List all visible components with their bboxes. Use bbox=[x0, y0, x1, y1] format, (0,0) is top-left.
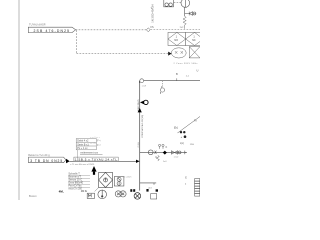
svg-text:c: c bbox=[185, 183, 187, 185]
thermometer circle bbox=[98, 190, 107, 199]
pipe label boxed bbox=[74, 157, 118, 161]
svg-text:12H: 12H bbox=[190, 144, 194, 146]
black diamond node bbox=[163, 151, 167, 155]
svg-text:+: + bbox=[181, 136, 183, 139]
svg-text:2SB 476-DN25: 2SB 476-DN25 bbox=[34, 29, 70, 33]
test point stub bbox=[162, 81, 164, 88]
flag callout 1SB5 bbox=[29, 157, 67, 163]
limit switches above chain bbox=[159, 144, 165, 149]
svg-text:entierement xxx: entierement xxx bbox=[80, 152, 98, 155]
table specs bbox=[76, 139, 96, 150]
gauge M1 circle bbox=[181, 0, 190, 7]
pump pair circles bbox=[115, 191, 126, 197]
wire dashed branch to pilot bbox=[77, 53, 169, 55]
node diamond connector bbox=[146, 28, 150, 32]
svg-text:E: E bbox=[185, 178, 187, 180]
valve block V1 cell 1 bbox=[168, 32, 186, 45]
svg-text:TUYAU d'ASP.: TUYAU d'ASP. bbox=[29, 22, 46, 26]
wire dashed branch down bbox=[76, 30, 78, 53]
aux box bbox=[151, 194, 157, 199]
pin tick B bbox=[176, 78, 178, 80]
svg-text:x xx 2-xx x: x xx 2-xx x bbox=[90, 137, 101, 139]
pilot oval P1 bbox=[171, 48, 186, 58]
svg-text:L(x): L(x) bbox=[180, 143, 184, 145]
svg-text:1: 1 bbox=[176, 36, 178, 39]
svg-text:F <: F < bbox=[97, 144, 101, 147]
svg-text:B: B bbox=[176, 72, 178, 76]
diagonal leader TK bbox=[178, 117, 201, 134]
svg-text:x13: x13 bbox=[148, 188, 152, 190]
spec text block bbox=[68, 173, 83, 188]
terminal strip bbox=[195, 179, 200, 197]
filter F1 bbox=[99, 172, 113, 187]
valve cell X (row2) bbox=[189, 47, 202, 58]
return pipe wire bbox=[70, 160, 137, 162]
branch chain wire bbox=[140, 151, 187, 153]
svg-text:COMP ACCA D 3P(3/8): COMP ACCA D 3P(3/8) bbox=[141, 115, 144, 138]
svg-text:Bxxxxx: Bxxxxx bbox=[29, 195, 37, 198]
wire dashed between breather and gauge bbox=[174, 1, 181, 3]
svg-text:1x4: 1x4 bbox=[163, 161, 167, 163]
wire dashed continuing right bbox=[151, 29, 201, 31]
inlet triangle marker bbox=[91, 166, 96, 172]
arrowhead into pilot oval bbox=[168, 52, 171, 56]
arrowhead into bus bbox=[136, 160, 140, 163]
svg-text:S4 x-B(7): S4 x-B(7) bbox=[123, 177, 132, 179]
coupling dark marks bbox=[130, 189, 132, 192]
svg-text:Px + 1 xx: Px + 1 xx bbox=[77, 147, 88, 150]
svg-text:3 TB DN 0N25: 3 TB DN 0N25 bbox=[30, 159, 62, 163]
svg-text:Debit 4 x2: Debit 4 x2 bbox=[77, 140, 89, 143]
sensor dots bbox=[180, 131, 182, 133]
pressure gauge block bbox=[114, 177, 124, 186]
motor box M bbox=[87, 193, 94, 198]
outlet wire bbox=[140, 182, 157, 184]
svg-text:x TL xxx 44x xxx x DN25: x TL xxx 44x xxx x DN25 bbox=[70, 164, 95, 166]
svg-text:K: K bbox=[166, 146, 168, 149]
check valve CV1 bbox=[185, 12, 196, 16]
svg-text:x 0,2: x 0,2 bbox=[174, 157, 179, 159]
svg-text:NO: NO bbox=[174, 39, 178, 42]
svg-text:NC: NC bbox=[192, 39, 196, 42]
measuring point M bbox=[140, 101, 144, 105]
svg-text:C 0,8: C 0,8 bbox=[138, 142, 140, 148]
leader from table bbox=[76, 150, 78, 161]
arrowhead from callout bbox=[66, 159, 70, 164]
svg-text:1,1: 1,1 bbox=[186, 75, 190, 77]
svg-text:1 SB.5 x TUYAU 24 xTL: 1 SB.5 x TUYAU 24 xTL bbox=[75, 157, 117, 161]
wire dashed to valve block bbox=[76, 29, 147, 31]
drain symbol at pipe start bbox=[139, 79, 143, 83]
svg-text:4M,: 4M, bbox=[59, 190, 64, 194]
sheet border line bbox=[18, 0, 20, 200]
main vertical bus bbox=[139, 81, 141, 191]
svg-text:2 Vmax 380V 50Hz: 2 Vmax 380V 50Hz bbox=[174, 63, 198, 65]
svg-text:Serie B x1: Serie B x1 bbox=[77, 143, 89, 146]
wire from gauge down bbox=[184, 7, 186, 16]
flag callout 2SB476 bbox=[28, 27, 75, 32]
svg-text:x 0,9: x 0,9 bbox=[142, 86, 147, 88]
svg-text:U: U bbox=[197, 68, 199, 72]
breather B1 (open-top twin circle) bbox=[164, 0, 174, 7]
svg-text:Retour re T+1 dC g: Retour re T+1 dC g bbox=[28, 154, 50, 157]
leader diagonal bbox=[95, 188, 99, 192]
flow arrow on bus bbox=[138, 108, 142, 113]
spring element bbox=[183, 16, 186, 29]
svg-text:F <: F < bbox=[97, 140, 101, 143]
tick pair bbox=[155, 151, 157, 154]
valve circle on chain bbox=[148, 150, 153, 155]
svg-text:FS: FS bbox=[151, 26, 154, 29]
end fitting bbox=[185, 151, 187, 155]
svg-text:1: 1 bbox=[193, 36, 195, 39]
test gauge bbox=[160, 88, 164, 94]
svg-text:Tk: Tk bbox=[194, 120, 197, 123]
svg-text:xx x3x: xx x3x bbox=[90, 143, 97, 145]
svg-text:4M 6x: 4M 6x bbox=[81, 191, 88, 193]
pump P circle-X bbox=[134, 193, 141, 200]
svg-text:[Ex]: [Ex] bbox=[174, 127, 178, 129]
svg-text:1V2: 1V2 bbox=[180, 27, 185, 29]
main pipe horizontal bbox=[144, 80, 200, 82]
valve block V1 cell 2 bbox=[186, 32, 204, 45]
check valve pair bbox=[171, 151, 181, 154]
